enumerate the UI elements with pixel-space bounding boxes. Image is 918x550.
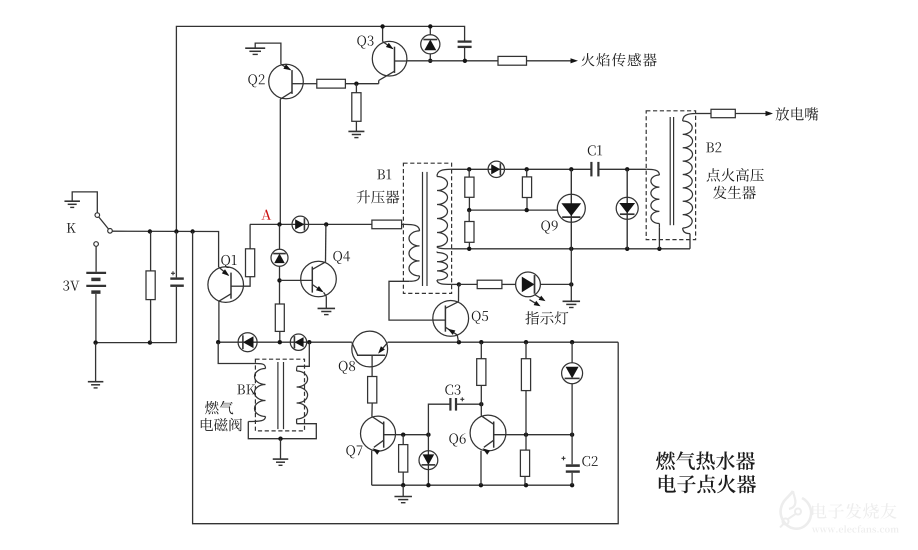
capacitor C1 [591,162,598,177]
wire resistor to Q6 [480,385,482,415]
resistor node A to B1 primary [372,220,402,229]
wire C3 left [428,404,450,435]
wire to flame sensor arrow [527,58,579,63]
capacitor top-right of flame sensor branch [458,42,472,61]
wire junction to BK secondary [298,342,310,366]
wire Q4 base [280,279,313,281]
wire Q3 emitter to top rail [380,24,384,41]
label C3 [445,385,460,395]
wire resistor to B1 [402,223,405,225]
wire Q9 anode-cathode [570,169,572,249]
wire mid rail right section [388,340,619,344]
ground at switch K [64,201,80,207]
transformer B1 secondary lower [437,252,452,285]
transformer BK secondary coil [297,366,308,423]
wire big loop left/bottom/right [193,232,619,524]
ground below LED branch [563,301,581,307]
junction rail-box edge [190,229,194,233]
wire junction to BK primary [218,342,256,363]
ground below Q4 [318,308,336,314]
diode above flame rail [421,35,440,54]
label K [67,223,76,233]
resistor above Q6 [477,359,486,386]
node A rail [250,222,372,226]
zener diode below node A [271,249,288,266]
wire zener to Q4 base junction [277,266,281,304]
label Q9 [541,221,557,234]
transformer B2 dashed box [646,111,695,240]
wire secondary top rail [452,167,592,171]
wire top rail to diode [428,24,432,35]
junction rail-resistor [148,229,152,233]
resistor Q8 base to Q7 [368,377,377,404]
label C1 [588,145,602,155]
wire Q9 cathode chain down [570,249,572,301]
resistor divider R-b [522,169,531,210]
resistor Q3 to ground [352,84,361,132]
wire Q5 base [433,319,446,321]
diode right of Q9 [616,197,638,219]
resistor flame sensor [498,56,527,65]
watermark text 电子发烧友 [812,503,897,519]
label 放电嘴 [776,107,819,121]
resistor LED branch [477,280,502,288]
wire Q4 collector to node A [325,224,327,262]
wire Q6 base right [494,433,575,437]
wire resistor to arrow [735,111,773,116]
thyristor Q9 [557,194,585,222]
transformer B2 primary coil [646,169,659,249]
wire diode chain top [571,342,573,362]
ground at top-left above Q2 [245,48,265,54]
diode D1 on mid rail [238,333,257,352]
wire secondary bottom rail [452,247,690,251]
wire Q5 emitter down [457,335,458,342]
label Q7 [346,445,362,458]
transistor Q4 [301,261,337,297]
wire Q6 emitter down [480,451,482,486]
transistor Q7 [361,416,396,455]
label 升压器 [357,190,400,203]
wire Q9 gate rail [467,208,557,212]
transistor Q3 [372,41,407,80]
transformer B1 secondary upper [437,169,452,249]
wire Q2 base to resistor [303,83,317,85]
watermark url [812,525,899,532]
resistor Q1 base to node A [246,249,255,277]
transformer BK dashed box [255,359,304,431]
wire Q7 emitter down [371,451,373,486]
label Q4 [333,251,350,264]
resistor discharge nozzle [711,109,735,117]
resistor divider R-a [465,169,474,210]
transistor Q6 [470,415,506,455]
wire Q7 base right [384,433,431,437]
wire resistor up to node A corner [249,224,251,248]
wire LED to ground chain [540,282,573,286]
capacitor C3 [450,397,464,410]
transistor Q5 [433,301,469,337]
label BK [237,385,255,395]
label Q3 [357,36,373,49]
resistor across battery [146,232,155,343]
wire resistor to Q7 collector [371,403,373,417]
wire B1 secondary bottom to LED node [452,282,461,286]
wire C1 to B2 primary [598,167,646,171]
transistor Q2 [269,64,304,99]
wire B2 secondary to resistor [696,113,711,115]
capacitor C2 [562,456,580,485]
wire Q7 base junction down [427,435,429,486]
transistor Q8 [352,331,388,367]
diode below C3 [419,451,438,470]
wire ground to Q2 emitter [255,43,281,64]
transformer B1 dashed box [403,163,451,293]
wire mid rail left section [216,340,352,344]
resistor lower right of Q6 [520,435,529,486]
wire B1 primary bottom to Q5 base [389,281,433,320]
transformer BK primary coil [248,364,265,422]
switch K contacts [94,213,113,247]
battery 3V [86,246,106,342]
wire resistor to diode rail [279,331,281,342]
label Q5 [472,311,488,324]
transformer B2 core [670,117,673,225]
wire Q4 emitter to ground [324,292,327,308]
diode on secondary rail [488,161,504,177]
label B1 [377,169,391,179]
label Q1 [221,255,236,268]
resistor Q7 base to ground rail [399,435,408,486]
junction rail-capacitor [174,229,178,233]
resistor chain upper right of Q6 [521,342,530,435]
label Q2 [248,74,264,87]
wire Q5 collector up [458,284,460,301]
node junction Q3 base divider [354,82,358,86]
transformer B1 core [423,172,428,286]
wire rail up to B2 secondary [689,234,691,249]
label Q6 [449,433,465,446]
wire battery ground rail [93,340,176,344]
diode on node A rail [292,216,309,233]
ground below bottom rail [394,485,412,503]
wire resistor to junction and Q3 [345,83,378,85]
wire diode to C2 [571,384,573,464]
wire Q8 base down [371,355,373,376]
wire Q3 collector to base network [378,81,380,84]
diode above C2 [562,363,583,384]
wire flame sensor rail [407,59,498,63]
electrolytic capacitor across battery [170,232,184,343]
transformer B1 primary coil [405,224,420,281]
ground below BK [273,439,289,466]
wire Q1 base to resistor [243,277,250,287]
wire node A down to zener [279,224,281,249]
ground below battery [88,343,104,388]
main rail from switch [112,231,218,267]
transformer B2 secondary coil [683,114,696,234]
wire diode to flame rail [428,54,432,63]
resistor below Q4 base junction [275,304,284,331]
wire supply rail from main rail up and across top [176,26,464,231]
label 燃气 [205,401,233,414]
label Q8 [339,361,355,374]
transistor Q1 [208,267,244,303]
title line 2 电子点火器 [659,475,756,494]
label 电磁阀 [201,418,242,431]
diode D2 on mid rail [290,334,306,350]
resistor Q2 base-Q3 [317,79,346,88]
title line 1 燃气热水器 [656,451,755,470]
wire C3 right [456,402,483,406]
label C2 [582,456,597,466]
label 发生器 [713,186,756,200]
wire diode anode-cathode [626,169,628,249]
wire switch to ground [72,192,97,213]
LED indicator 指示灯 [516,272,546,306]
ground below Q3 base resistor [348,131,364,137]
junction BK center tap [278,437,282,441]
wire bottom ground rail [372,483,575,487]
label 点火高压 [707,168,764,182]
label 3V [63,281,79,291]
resistor divider R-c [465,210,474,249]
transformer BK core [278,362,284,429]
wire BK bottom loop [248,422,316,439]
label 指示灯 [525,311,568,324]
wire resistor to LED [502,283,516,285]
wire Q1 collector down [218,301,220,342]
watermark logo [780,491,811,529]
label flame sensor 火焰传感器 [581,53,657,67]
label A (red) [261,210,271,220]
wire Q6 collector chain [480,342,482,359]
wire LED branch left [459,283,477,285]
label B2 [706,142,721,152]
wire Q2 collector down to node A [279,99,281,224]
